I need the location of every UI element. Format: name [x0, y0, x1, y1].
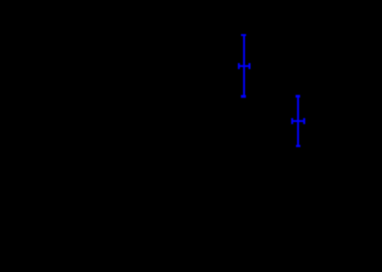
junction dot at node B (bottom of V1) [241, 95, 246, 98]
V2 crossbar right tick [303, 118, 305, 124]
source V1 (upper vertical two-terminal element, highlighted blue) [238, 34, 251, 98]
V2 bottom terminal cap [296, 145, 300, 147]
V1 lead wire (vertical) [243, 35, 245, 96]
V1 crossbar right tick [249, 63, 251, 69]
V2 lead wire (vertical) [297, 95, 299, 145]
junction dot at node B (top of V2) [296, 95, 301, 98]
V2 crossbar [292, 120, 305, 122]
V1 top terminal cap [241, 34, 246, 36]
source V2 (lower vertical two-terminal element, highlighted blue) [291, 95, 305, 147]
V1 crossbar [238, 65, 251, 67]
V2 crossbar left tick [291, 118, 293, 124]
V1 crossbar left tick [238, 63, 240, 69]
